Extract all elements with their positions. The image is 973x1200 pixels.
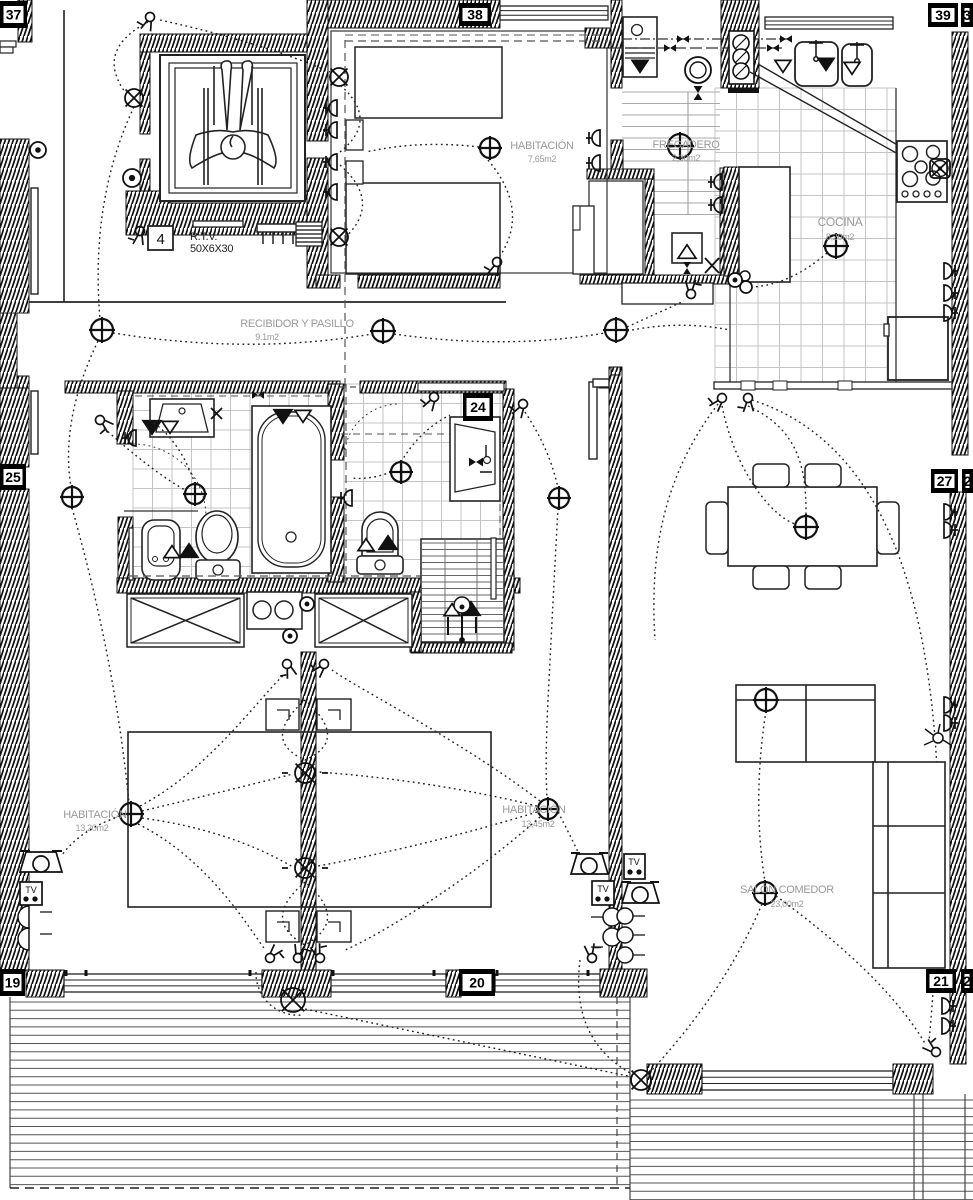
nightstand bedroom1 a — [346, 120, 363, 150]
heater room west wall — [720, 168, 730, 276]
entry step b — [0, 47, 13, 53]
bath2 top wall — [360, 381, 506, 393]
salon fan symbol — [924, 724, 951, 745]
fregadero west wall — [611, 0, 622, 88]
wire salon ab — [759, 711, 766, 882]
left outer wall step — [17, 376, 29, 388]
wire salon right — [776, 896, 926, 1045]
wire entry light down — [98, 107, 134, 319]
kitchen corner socket — [740, 281, 752, 293]
sink drain mark — [818, 58, 834, 70]
fridge appliance detail — [625, 25, 655, 59]
dining switch b — [735, 393, 754, 414]
shower extractor — [448, 597, 476, 642]
sink mark hollow a — [775, 60, 791, 72]
bedroom switch bb — [294, 944, 311, 963]
bed bedroom1 upper — [355, 47, 502, 118]
hall switch — [684, 278, 703, 299]
wire bath1 switch to light — [104, 428, 185, 490]
bed3 corner switch — [583, 941, 605, 964]
left outer wall hall — [0, 388, 29, 467]
sink mark hollow b — [844, 62, 860, 74]
salon window — [702, 1071, 893, 1090]
south window 1 — [64, 974, 262, 992]
wire corridor b — [394, 333, 605, 342]
shower mark filled R — [462, 602, 480, 616]
svg-text:21: 21 — [933, 973, 949, 989]
wire bed2 xb — [142, 818, 293, 867]
elevator top wall — [140, 34, 328, 52]
door bell symbol — [30, 142, 46, 158]
hall radiator top — [593, 379, 609, 387]
cooktop — [897, 141, 947, 202]
bedroom1 door dash v — [344, 40, 346, 390]
wire top switch to bedroom wall — [160, 20, 330, 72]
svg-text:2: 2 — [963, 973, 971, 989]
sink faucet left — [809, 40, 823, 61]
sink faucet right — [850, 42, 864, 63]
hall light — [60, 485, 84, 509]
elevator bottom wall — [126, 191, 326, 235]
left outer wall mid-thin — [0, 313, 17, 388]
nightstand c — [266, 911, 299, 942]
closet door leaf bedroom1 — [573, 206, 594, 274]
bedroom1 ceiling light — [478, 136, 502, 160]
bath2 washbasin — [450, 417, 500, 501]
entry boundary line — [63, 10, 65, 302]
wall step detail — [599, 367, 620, 388]
bedroom1 wall light a — [330, 68, 348, 86]
ref box 21 — [926, 969, 956, 993]
bath1 switch — [90, 414, 114, 438]
bed bedroom1 lower — [346, 183, 500, 274]
terrace divider solid — [629, 997, 631, 1200]
wire dining a — [722, 406, 795, 524]
wardrobe socket b — [283, 629, 297, 643]
fridge lower handle — [884, 324, 889, 336]
bedroom1 door dash h — [345, 40, 608, 42]
terrace light 2 — [281, 988, 305, 1012]
svg-text:TV: TV — [25, 885, 37, 895]
ref box 39b — [961, 3, 973, 27]
water heater box — [672, 233, 702, 263]
east outer wall salon — [950, 492, 966, 1064]
svg-text:2: 2 — [964, 473, 972, 489]
laundry shaft wall — [721, 0, 759, 88]
wire hall2 a — [525, 412, 558, 488]
bedroom wall light a — [295, 763, 315, 783]
kitchen north window 1 — [765, 17, 893, 29]
wire corridor c — [627, 325, 730, 331]
hall2 ceiling light — [547, 486, 571, 510]
switch beside box 4 — [128, 227, 145, 246]
hall-dining doorway frame — [622, 283, 713, 304]
bedroom1 bottom wall E — [358, 275, 500, 288]
dining chair right — [877, 502, 899, 554]
south wall seg A — [26, 970, 64, 997]
salon radiator b — [944, 715, 958, 731]
counter diagonal a — [750, 72, 918, 165]
kitchen counter island — [739, 167, 790, 282]
closet north wall — [611, 140, 623, 169]
bath2 basin valve — [469, 458, 483, 467]
gas valve a — [677, 35, 689, 43]
bathroom 1 floor tiles — [133, 391, 328, 578]
gas line — [622, 38, 790, 40]
svg-text:FREGADERO: FREGADERO — [653, 139, 721, 151]
dining chair left — [706, 502, 728, 554]
terrace boundary dashed — [10, 1187, 630, 1189]
shower tray joint b — [476, 539, 478, 642]
wire bedroom1 light to wall b — [488, 160, 513, 256]
svg-text:COCINA: COCINA — [818, 215, 863, 229]
svg-text:9.1m2: 9.1m2 — [255, 332, 279, 342]
elevator left wall upper — [140, 52, 150, 134]
fridge mark — [632, 60, 648, 72]
svg-text:50X6X30: 50X6X30 — [190, 243, 233, 255]
svg-text:37: 37 — [6, 7, 22, 23]
shower tray joint a — [444, 539, 446, 642]
closet door step — [573, 206, 580, 230]
bathtub — [252, 406, 331, 573]
bedroom1 north window — [500, 6, 608, 20]
wire bath2 light — [401, 415, 450, 462]
wire hall light down — [72, 508, 129, 803]
wire bath2 light left — [352, 472, 391, 478]
entry top switch — [136, 10, 155, 31]
bath1 floor mark filled — [180, 544, 198, 558]
bedroom1 socket b — [323, 122, 337, 138]
east outer wall kitchen — [952, 32, 968, 455]
phone symbol bed3 — [571, 853, 608, 874]
svg-text:HABITACIÓN: HABITACIÓN — [510, 139, 574, 152]
wall stub below wardrobe — [410, 592, 421, 652]
salon socket br a — [942, 998, 956, 1014]
bath1 vanity sink — [150, 399, 214, 437]
nightstand d — [317, 911, 351, 942]
dining chair top a — [753, 464, 789, 487]
wire cocina light — [752, 253, 827, 287]
wire terrace curve — [579, 960, 632, 1074]
wardrobe right — [315, 594, 412, 647]
radiator left — [18, 906, 52, 950]
left outer wall upper — [0, 139, 29, 313]
sink basin right — [842, 44, 872, 86]
ref box 20 — [459, 969, 495, 996]
bath1 door arc — [133, 444, 206, 517]
cocina light — [823, 233, 849, 259]
wire bed3 bl — [345, 817, 540, 950]
bedroom2 ceiling light — [118, 801, 144, 827]
closet interior — [589, 181, 643, 274]
hall radiator — [589, 382, 597, 459]
bedroom wall light b — [295, 858, 315, 878]
wire dining b — [748, 406, 806, 514]
svg-text:HABITACIÓN: HABITACIÓN — [502, 803, 566, 816]
wire bedroom1 arc low — [340, 165, 363, 242]
bedroom1 socket a — [323, 100, 337, 116]
wire bed circle b — [283, 882, 328, 945]
boiler circle — [685, 57, 711, 83]
bath2 top switch — [418, 389, 440, 412]
wall right of elevator — [307, 0, 328, 141]
bath1 sink mark filled — [143, 421, 161, 435]
entry socket symbol — [123, 169, 141, 187]
bath1 west wall lower — [118, 517, 133, 593]
wire bed2 tl — [140, 674, 285, 806]
corridor light 3 — [603, 317, 629, 343]
salon light b — [752, 880, 778, 906]
bath dashed bottom — [130, 575, 515, 577]
wardrobe socket a — [300, 597, 314, 611]
fregadero lower floor lines — [654, 180, 720, 215]
terrace right divider b — [922, 1094, 924, 1200]
bedroom switch bc — [309, 940, 333, 964]
sofa vertical — [873, 762, 945, 968]
towel rail bath1 — [129, 528, 133, 580]
closet top wall — [587, 169, 654, 179]
bedroom2 east wall — [609, 367, 622, 997]
left outer wall lower — [0, 489, 29, 971]
svg-text:4: 4 — [156, 231, 164, 248]
bath1 west wall upper — [117, 391, 133, 444]
wire bedroom1 arc — [340, 85, 360, 152]
terrace deck boards right — [630, 1100, 973, 1200]
wheelchair user figure — [190, 61, 276, 185]
wire bed2 phone — [62, 816, 120, 855]
ref box 38 — [459, 3, 491, 26]
elevator left wall lower — [140, 159, 150, 191]
bedroom1 wall light b — [330, 228, 348, 246]
terrace divider dashed — [616, 997, 618, 1188]
wire corridor a — [113, 333, 372, 344]
wall right of elevator lower — [307, 158, 328, 288]
wire top switch curve — [114, 22, 148, 92]
hose bib — [728, 273, 742, 287]
wire hall area — [627, 301, 684, 327]
entry door leaf — [31, 188, 38, 294]
bath door dash — [340, 386, 360, 388]
bath2 dashed door — [345, 384, 347, 582]
phone symbol salon — [622, 882, 659, 903]
svg-text:HABITACIÓN: HABITACIÓN — [63, 808, 127, 821]
bidet bath1 — [142, 520, 180, 580]
svg-text:20: 20 — [469, 975, 485, 991]
kitchen east socket b — [944, 285, 958, 301]
gas valve d — [767, 44, 779, 52]
bath1 sink mark hollow — [162, 421, 178, 433]
south wall seg C — [446, 970, 461, 997]
bath1 area divider — [124, 510, 198, 512]
bedrooms center wall — [301, 652, 316, 975]
bath2 top wall inset — [418, 383, 504, 391]
bath2 door arc — [344, 404, 399, 460]
terrace right divider a — [913, 1094, 915, 1200]
south window 2 — [331, 974, 446, 992]
fregadero floor joint — [687, 92, 689, 215]
corridor light 1 — [89, 317, 115, 343]
closet socket b — [586, 155, 600, 171]
shower tray lines — [422, 543, 503, 634]
wire bed3 xb — [318, 812, 537, 866]
bedroom switch ba — [264, 944, 288, 968]
bath mid wall lower — [328, 497, 344, 582]
svg-text:39: 39 — [935, 7, 951, 23]
bedroom1 door dash h2 — [345, 34, 608, 36]
wire bed circle a — [283, 700, 328, 760]
wardrobe left — [127, 594, 244, 647]
bath2 door socket — [338, 490, 352, 506]
laundry cabinet — [247, 592, 302, 629]
salon radiator a — [944, 697, 958, 713]
bath1 socket — [122, 430, 136, 446]
ref box 27b — [962, 469, 973, 493]
ref box 25 — [0, 464, 26, 490]
dining north counter line — [714, 381, 952, 390]
bath2 east wall — [503, 389, 514, 650]
kitchen mid wall — [724, 167, 739, 276]
terrace left edge — [9, 997, 11, 1188]
tv symbol bed3 — [592, 881, 614, 905]
wire corridor to hall light — [69, 341, 98, 487]
wire dining big arc — [752, 400, 939, 1042]
dining chair bottom a — [753, 566, 789, 589]
wire salon down — [650, 904, 762, 1072]
terrace deck boards left — [10, 1002, 630, 1185]
kitchen wall socket a — [708, 174, 722, 190]
bath mid wall upper — [328, 384, 344, 460]
corridor top line — [29, 301, 506, 303]
bath1 sink x-valve — [211, 408, 222, 419]
bath2 ceiling light — [389, 460, 413, 484]
counter diagonal b — [758, 64, 920, 158]
washer column circles — [729, 31, 754, 84]
wire terrace diag — [300, 1008, 628, 1076]
bathtub mark filled — [274, 410, 292, 424]
nightstand a — [266, 699, 299, 730]
fregadero light — [666, 132, 694, 160]
svg-text:25: 25 — [5, 469, 21, 485]
bath2 dashed east — [499, 432, 501, 647]
svg-text:R.T.V.: R.T.V. — [190, 231, 217, 243]
svg-text:13,45m2: 13,45m2 — [522, 819, 555, 829]
svg-text:SALÓN COMEDOR: SALÓN COMEDOR — [740, 883, 834, 896]
bathtub mark hollow — [295, 410, 311, 422]
ref box 37 — [0, 1, 27, 28]
wire dining left arc — [654, 404, 718, 640]
svg-text:RECIBIDOR Y PASILLO: RECIBIDOR Y PASILLO — [240, 318, 354, 330]
nightstand marks — [277, 710, 340, 932]
svg-text:19: 19 — [5, 975, 21, 991]
bedroom1 bottom switch — [483, 255, 502, 276]
wire hall2 b — [548, 508, 558, 700]
bath2 basin tap — [480, 445, 492, 472]
heater x valve — [705, 258, 719, 273]
shower rail — [491, 538, 496, 599]
wire bedroom1 light to wall a — [366, 144, 479, 152]
gas valve b — [664, 44, 676, 52]
bedroom1 bottom wall W — [316, 275, 340, 288]
shower tray — [421, 539, 504, 642]
elevator cab mid — [169, 63, 297, 193]
phone symbol left — [20, 851, 62, 872]
beds bedroom2-3 — [128, 732, 491, 907]
kitchen wall socket b — [708, 197, 722, 213]
svg-text:13,20m2: 13,20m2 — [76, 823, 109, 833]
boiler valve — [694, 86, 703, 100]
shower mark hollow L — [444, 604, 460, 616]
heater mark hollow — [678, 245, 696, 258]
svg-text:8,20m2: 8,20m2 — [826, 232, 855, 242]
cooktop wok burner — [930, 159, 950, 178]
hall south wall — [580, 275, 729, 284]
bedroom1 top wall — [328, 0, 500, 28]
dining ceiling light — [793, 514, 819, 540]
hall2 switch — [507, 396, 529, 419]
corridor light 2 — [370, 318, 396, 344]
svg-text:2,30m2: 2,30m2 — [672, 153, 701, 163]
salon south wall E — [893, 1064, 933, 1094]
ref box 19 — [0, 969, 25, 996]
bath1 top dash — [135, 395, 330, 397]
bedroom wall light ticks — [282, 773, 328, 868]
elevator cab outer — [160, 55, 305, 201]
svg-text:27: 27 — [937, 473, 953, 489]
dining switch a — [705, 388, 729, 412]
terrace light — [631, 1070, 651, 1090]
wire bed2 xa — [142, 774, 293, 811]
bedroom1 socket d — [323, 184, 337, 200]
svg-text:TV: TV — [597, 884, 609, 894]
bedroom switch ta — [274, 658, 298, 682]
svg-text:7,65m2: 7,65m2 — [528, 154, 557, 164]
south window 3 — [495, 974, 600, 992]
bedroom3 ceiling light — [536, 797, 560, 821]
wire hall2 c — [546, 700, 548, 798]
wire bed2 bl — [138, 824, 264, 948]
ref box 39 — [928, 3, 958, 27]
bath top wall — [65, 381, 340, 393]
water line — [610, 47, 786, 49]
salon light a — [753, 687, 779, 713]
tv symbol left — [20, 882, 42, 905]
south window ticks — [66, 970, 588, 976]
bedroom switch tb — [307, 654, 331, 678]
radiator bed3 — [591, 908, 645, 963]
dining east socket b — [944, 522, 958, 538]
ref box 21b — [961, 969, 973, 993]
kitchen floor tiles — [715, 88, 896, 382]
kitchen west floor line — [729, 285, 731, 385]
kitchen east socket a — [944, 263, 958, 279]
bedroom1 socket c — [323, 154, 337, 170]
gas valve c — [780, 35, 792, 43]
kitchen east socket c — [944, 305, 958, 321]
svg-text:24: 24 — [470, 399, 486, 415]
bathroom 2 floor tiles — [344, 384, 503, 578]
svg-text:38: 38 — [467, 7, 483, 23]
shower screen line — [964, 1094, 966, 1200]
closet east wall — [645, 179, 654, 276]
sink basin left — [795, 42, 838, 86]
laundry shaft ledge — [728, 88, 759, 93]
salon socket br b — [942, 1018, 956, 1034]
svg-text:TV: TV — [628, 857, 640, 867]
bath1 valve — [252, 391, 264, 399]
fridge lower — [888, 317, 948, 380]
south wall seg B — [262, 970, 331, 997]
registration box 4 — [148, 226, 173, 250]
